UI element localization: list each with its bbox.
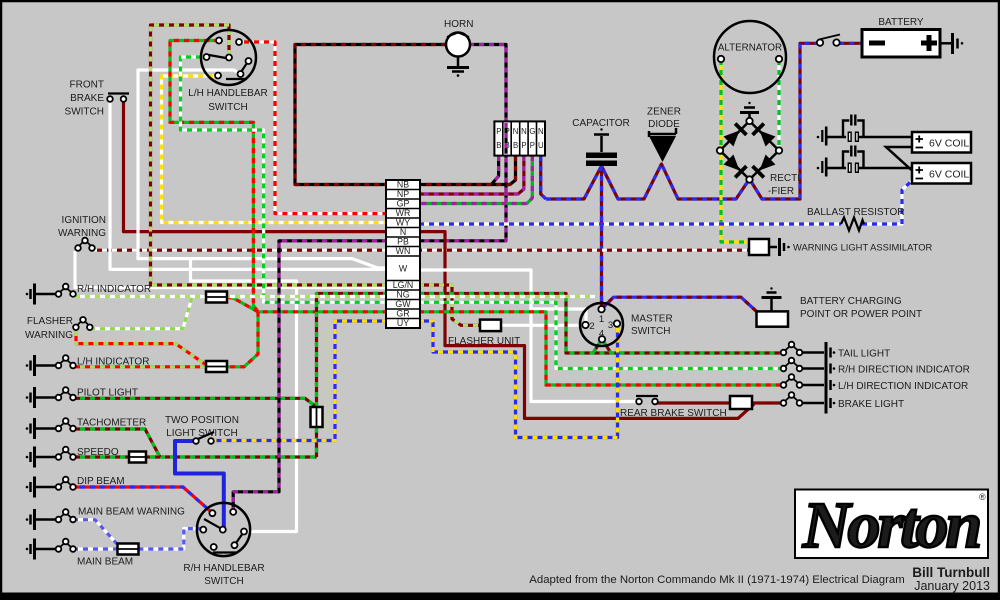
svg-text:1: 1: [599, 314, 604, 325]
svg-text:L/H INDICATOR: L/H INDICATOR: [77, 357, 149, 368]
wire N (brown) block row N right to rear brake light circuit: [419, 232, 754, 419]
svg-text:N: N: [400, 227, 406, 237]
svg-text:PILOT LIGHT: PILOT LIGHT: [77, 388, 138, 399]
front brake switch FRONT BRAKE SWITCH: [65, 80, 129, 118]
wire NG tachometer lamp joining speedo run: [70, 429, 160, 457]
lamp SPEEDO: [26, 447, 119, 468]
svg-text:2: 2: [589, 321, 594, 332]
warning light assimilator box: [749, 238, 932, 256]
svg-text:B: B: [513, 141, 518, 150]
svg-text:REAR BRAKE SWITCH: REAR BRAKE SWITCH: [620, 408, 727, 419]
svg-text:W: W: [399, 264, 408, 274]
wire NU (brown/blue) strip cell 6 down to main battery bus: [541, 156, 546, 199]
svg-text:PB: PB: [397, 237, 409, 247]
wire NB (brown/black) horn left pin to connector block row NB: [295, 45, 446, 185]
svg-text:6V COIL: 6V COIL: [929, 138, 969, 150]
wire NG (brown/green) pilot light lamp to connector and up to block row NG: [70, 294, 387, 458]
svg-text:6V COIL: 6V COIL: [929, 169, 969, 181]
wire GP (green/purple) strip cell 5 down to block row GP: [419, 156, 532, 204]
wire W (white) front brake switch left pin down to block row W: [110, 101, 387, 269]
wire GW block row right to R/H direction indicator: [419, 302, 783, 368]
svg-text:WARNING LIGHT ASSIMILATOR: WARNING LIGHT ASSIMILATOR: [793, 242, 932, 253]
svg-text:DIP BEAM: DIP BEAM: [77, 476, 125, 487]
wire battery feed (brown/blue) fuse to battery: [839, 42, 862, 45]
lamp MAIN BEAM: [26, 539, 133, 568]
svg-text:TAIL LIGHT: TAIL LIGHT: [838, 349, 890, 360]
fuse on battery lead: [817, 35, 840, 46]
wire W (white) L/H handlebar switch lower-right terminal to block row W: [138, 70, 387, 268]
lamp TACHOMETER: [26, 418, 147, 440]
svg-text:WARNING: WARNING: [25, 330, 73, 341]
svg-text:SPEEDO: SPEEDO: [77, 447, 119, 458]
lamp PILOT LIGHT: [26, 387, 138, 408]
svg-text:R/H INDICATOR: R/H INDICATOR: [77, 284, 151, 295]
lamp L/H INDICATOR: [26, 355, 150, 376]
connector block 14-way (NB NP GP WR WY N PB WN W LG/N NG GW GR UY): [386, 180, 420, 329]
alternator ALTERNATOR: [714, 21, 786, 93]
lamp MAIN BEAM WARNING: [26, 507, 185, 531]
connector strip 6-way (PB PB NB NP GP NU): [494, 121, 545, 155]
contact breaker set 1 with ground and condenser: [817, 115, 912, 146]
svg-text:HORN: HORN: [444, 19, 473, 30]
wire brown/blue master switch terminal 1 to battery charging point: [602, 297, 757, 311]
wire GR (green/red) L/H handlebar switch top-left terminal down to junction and block row GR: [170, 41, 387, 312]
coil 2 6V COIL: [912, 163, 971, 184]
svg-text:Adapted from the Norton Comman: Adapted from the Norton Commando Mk II (…: [529, 574, 904, 586]
svg-text:IGNITION: IGNITION: [62, 215, 106, 226]
coil 1 6V COIL: [912, 132, 971, 153]
lamp IGNITION WARNING: [58, 215, 106, 251]
svg-text:N: N: [513, 127, 519, 136]
battery BATTERY: [862, 17, 963, 57]
wire brown/blue capacitor junction down to master switch terminal 1: [600, 166, 603, 309]
wire NG block row right to tail light and master switch terminal 4 tent: [419, 294, 783, 354]
wire N (brown) front brake switch down to block row N: [124, 101, 388, 232]
connector box on main beam wire: [118, 544, 139, 555]
wire GR junction down to L/H indicator connector box: [226, 312, 258, 367]
rear brake connector box: [730, 396, 752, 409]
rectifier diode bottom-right: [751, 154, 776, 179]
svg-text:SWITCH: SWITCH: [204, 576, 243, 587]
horn HORN: [444, 19, 473, 77]
connector box on speedo wire: [129, 452, 146, 463]
wire UR (red/blue) dip beam lamp to R/H handlebar switch top-left terminal: [70, 487, 212, 513]
svg-text:NP: NP: [397, 189, 409, 199]
rear brake switch REAR BRAKE SWITCH: [620, 396, 727, 419]
R/H handlebar switch: [183, 503, 264, 587]
connector box on R/H indicator wire: [206, 292, 227, 303]
svg-text:U: U: [538, 141, 544, 150]
svg-text:BATTERY CHARGING: BATTERY CHARGING: [800, 296, 902, 307]
zener diode ZENER DIODE: [647, 107, 681, 163]
svg-text:UY: UY: [397, 318, 409, 328]
wire UW main beam lamp through connector to R/H handlebar switch left terminal: [73, 547, 117, 550]
svg-text:BALLAST RESISTOR: BALLAST RESISTOR: [807, 207, 904, 218]
lamp FLASHER WARNING: [25, 316, 93, 341]
svg-text:Bill Turnbull: Bill Turnbull: [912, 565, 990, 580]
svg-text:-FIER: -FIER: [768, 186, 794, 197]
wire GR block row right to L/H direction indicator: [419, 312, 783, 385]
wire GW (green/white) L/H handlebar switch left terminal to block row GW: [181, 57, 388, 302]
svg-text:BATTERY: BATTERY: [878, 17, 924, 28]
wire NP (brown/purple) strip cell 4 down to block row NP: [419, 156, 524, 194]
svg-text:BRAKE LIGHT: BRAKE LIGHT: [838, 399, 904, 410]
rectifier diode top-right: [751, 122, 776, 147]
svg-text:MAIN BEAM WARNING: MAIN BEAM WARNING: [78, 507, 185, 518]
wire R/LG flasher warning lamp left pin down to L/H indicator connector: [76, 331, 206, 365]
wire W/LG flasher warning lamp joining R/H indicator run: [90, 297, 192, 329]
svg-text:Norton: Norton: [802, 489, 980, 562]
svg-text:GW: GW: [395, 299, 411, 309]
wire NB from strip cell 3 down to block row NB right side: [419, 156, 516, 185]
svg-text:N: N: [521, 127, 527, 136]
battery charging point box: [757, 287, 923, 326]
wire UY (blue/yellow) block row UY left down to two position light switch: [213, 321, 387, 441]
wire W (white) branch down to R/H handlebar switch right terminal: [191, 259, 297, 532]
svg-text:L/H HANDLEBAR: L/H HANDLEBAR: [188, 88, 267, 99]
vertical connector box on pilot/speedo feed: [311, 407, 323, 427]
wire LG/N (lightgreen/brown) L/H handlebar switch centre terminal to block row LG/N: [151, 25, 388, 285]
wire W (white) ignition warning left pin down and right to block: [75, 251, 387, 288]
wire UY block row UY right to master switch terminal 3: [419, 321, 618, 438]
wire U (blue) two position light switch to R/H handlebar switch centre terminal: [175, 441, 224, 527]
svg-text:B: B: [496, 141, 501, 150]
wire W (white) block row W right side to rear brake switch and master switch terminal 2: [419, 270, 637, 402]
svg-text:TACHOMETER: TACHOMETER: [77, 418, 146, 429]
svg-text:R/H DIRECTION INDICATOR: R/H DIRECTION INDICATOR: [838, 365, 970, 376]
capacitor CAPACITOR: [572, 118, 629, 166]
svg-text:CAPACITOR: CAPACITOR: [572, 118, 629, 129]
svg-text:4: 4: [599, 329, 604, 340]
svg-text:R/H HANDLEBAR: R/H HANDLEBAR: [183, 563, 264, 574]
svg-text:SWITCH: SWITCH: [208, 102, 247, 113]
wire UW (white/blue) main beam warning lamp down to main beam connector: [73, 520, 117, 544]
wire WG (white/green) alternator right terminal to rectifier right node: [777, 60, 780, 147]
wire PB (black/purple) block row PB left down to R/H handlebar switch top-right terminal: [233, 241, 387, 509]
connector box on L/H indicator wire: [206, 361, 227, 372]
svg-text:FLASHER UNIT: FLASHER UNIT: [448, 336, 520, 347]
coil interconnect wires: [886, 147, 912, 171]
svg-text:MASTER: MASTER: [631, 314, 673, 325]
flasher unit FLASHER UNIT: [448, 320, 520, 347]
svg-text:BRAKE: BRAKE: [70, 93, 104, 104]
svg-text:P: P: [530, 141, 535, 150]
svg-text:RECTI: RECTI: [770, 173, 800, 184]
lamp DIP BEAM: [26, 476, 125, 498]
bottom black bar: [0, 593, 1000, 600]
wire NG speedo lamp run: [70, 455, 317, 458]
wire GR junction diagonal up to R/H indicator connector box: [227, 297, 258, 312]
svg-text:®: ®: [979, 492, 986, 502]
svg-text:P: P: [496, 127, 501, 136]
wire LG/N block row right to flasher unit: [419, 285, 480, 325]
svg-text:WN: WN: [396, 246, 411, 256]
lamp TAIL LIGHT: [781, 342, 891, 363]
wire YG (yellow/green) alternator left terminal through rectifier left node down to warning light assimilator: [721, 60, 749, 242]
contact breaker set 2 with ground and condenser: [817, 146, 912, 177]
wire N (brown) rear brake switch to brake light bulb: [656, 401, 783, 404]
Norton logo box: [795, 489, 988, 562]
svg-text:G: G: [529, 127, 535, 136]
lamp L/H DIRECTION INDICATOR: [781, 374, 969, 395]
lamp BRAKE LIGHT: [781, 392, 904, 413]
wire PB (purple/black) horn right pin down to top connector strip cell 2 and on to block row PB: [419, 45, 506, 241]
master switch MASTER SWITCH: [580, 303, 673, 346]
svg-text:SWITCH: SWITCH: [65, 107, 104, 118]
svg-text:MAIN BEAM: MAIN BEAM: [77, 557, 133, 568]
svg-text:FLASHER: FLASHER: [27, 316, 73, 327]
two position light switch TWO POSITION LIGHT SWITCH: [165, 415, 239, 444]
wire W (white) flasher unit to master switch terminal 2: [501, 324, 583, 327]
L/H handlebar switch: [188, 30, 267, 113]
svg-text:3: 3: [608, 320, 613, 331]
svg-text:WR: WR: [396, 208, 411, 218]
svg-text:P: P: [521, 141, 526, 150]
svg-text:WARNING: WARNING: [58, 228, 106, 239]
wire ballast bus (white/blue) block row WY right to ballast resistor and coil 2: [419, 222, 841, 225]
wire WN (white/brown) ignition warning lamp to block row WN and on to warning light assimilator: [92, 249, 749, 252]
svg-text:GR: GR: [396, 309, 409, 319]
lamp R/H DIRECTION INDICATOR: [781, 358, 970, 379]
svg-text:N: N: [538, 127, 544, 136]
wire R/LG L/H indicator lamp to connector box: [70, 365, 206, 368]
svg-text:NB: NB: [397, 180, 409, 190]
svg-text:ZENER: ZENER: [647, 107, 681, 118]
wire WY (white/yellow) L/H handlebar switch bottom terminal to block row WY: [162, 76, 388, 223]
rectifier diode bottom-left: [723, 154, 748, 179]
wire WR (white/red) L/H handlebar switch top-right terminal to block row WR: [239, 42, 387, 214]
rectifier diode top-left: [723, 122, 748, 147]
svg-text:NG: NG: [396, 290, 409, 300]
svg-text:TWO POSITION: TWO POSITION: [165, 415, 239, 426]
svg-text:GP: GP: [397, 199, 410, 209]
ballast resistor BALLAST RESISTOR: [807, 207, 904, 231]
svg-text:L/H DIRECTION INDICATOR: L/H DIRECTION INDICATOR: [838, 381, 968, 392]
wire main bus (brown/blue) y=199 with peaks to capacitor, zener, rectifier, up to battery: [546, 43, 817, 199]
rectifier bridge RECTIFIER: [717, 102, 800, 197]
svg-text:SWITCH: SWITCH: [631, 326, 670, 337]
rectifier nodes: [746, 118, 752, 124]
svg-text:January 2013: January 2013: [914, 579, 990, 593]
wire PB stub from strip cell 1: [491, 156, 499, 185]
lamp R/H INDICATOR: [26, 284, 151, 305]
svg-text:ALTERNATOR: ALTERNATOR: [718, 43, 782, 54]
wire PB visible through strip cell 2: [504, 123, 507, 154]
wire LG/W R/H indicator lamp through connector to centre of diagram: [70, 295, 595, 298]
svg-text:FRONT: FRONT: [70, 80, 104, 91]
svg-text:LG/N: LG/N: [393, 280, 414, 290]
svg-text:WY: WY: [396, 218, 410, 228]
svg-text:POINT OR POWER POINT: POINT OR POWER POINT: [800, 309, 922, 320]
